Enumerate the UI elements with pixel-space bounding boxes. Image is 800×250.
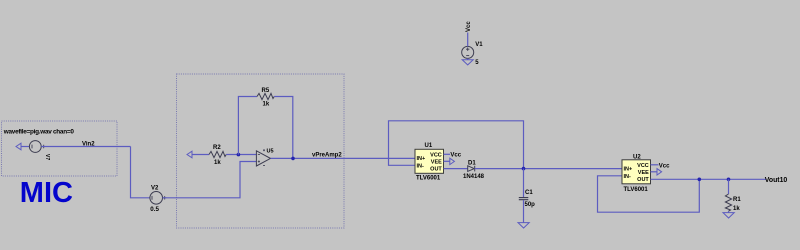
U1 VEE port flag xyxy=(450,158,455,164)
svg-text:V2: V2 xyxy=(151,186,159,192)
svg-text:C1: C1 xyxy=(525,190,533,196)
wire junction down to R1 xyxy=(728,179,730,194)
svg-text:wavefile=pig.wav chan=0: wavefile=pig.wav chan=0 xyxy=(3,129,75,136)
svg-text:R1: R1 xyxy=(733,197,741,203)
resistor R5 xyxy=(257,93,274,99)
svg-text:1N4148: 1N4148 xyxy=(463,174,485,180)
op-amp U5 xyxy=(256,151,270,166)
svg-text:V7: V7 xyxy=(44,154,50,160)
junction feedback node xyxy=(698,178,702,182)
V1 bottom stub xyxy=(467,58,469,59)
U1 OUT wire to diode xyxy=(444,168,468,170)
wire arrow to R2 xyxy=(192,154,209,156)
V7 minus mark xyxy=(31,145,33,149)
op-amp U1 body xyxy=(415,149,444,173)
R1 bottom stub xyxy=(728,211,730,212)
svg-text:U1: U1 xyxy=(425,143,433,149)
U2 VEE stub wire xyxy=(651,171,658,173)
svg-text:IN+: IN+ xyxy=(624,167,633,173)
voltage source V2 circle xyxy=(150,192,163,205)
V2 plus mark xyxy=(163,196,166,199)
svg-text:50p: 50p xyxy=(525,202,536,208)
svg-text:VCC: VCC xyxy=(430,152,442,158)
U2 VEE port flag xyxy=(657,169,662,175)
svg-text:Vin2: Vin2 xyxy=(82,141,95,147)
wire V7 to corner xyxy=(41,146,130,148)
svg-text:VEE: VEE xyxy=(638,170,649,176)
port arrow input (mic) xyxy=(16,143,21,150)
wire junction down to C1 xyxy=(523,169,525,198)
svg-text:U2: U2 xyxy=(633,155,641,161)
U2 OUT wire to Vout10 xyxy=(651,178,767,180)
preamp dashed region box xyxy=(177,74,345,228)
svg-text:TLV6001: TLV6001 xyxy=(416,176,441,182)
capacitor C1 xyxy=(519,198,529,200)
U1 VEE stub wire xyxy=(444,160,450,162)
U2 feedback loop xyxy=(598,176,700,212)
wire C1 to ground xyxy=(523,200,525,222)
U5 bottom rail tick xyxy=(263,165,265,167)
svg-text:OUT: OUT xyxy=(430,167,442,173)
voltage source V1 circle xyxy=(462,46,474,58)
svg-text:R5: R5 xyxy=(262,88,270,94)
op-amp U2 body xyxy=(622,160,651,184)
svg-text:OUT: OUT xyxy=(637,177,649,183)
U5 top rail tick xyxy=(263,149,265,151)
wire R2 to junction xyxy=(226,154,256,156)
junction R1 node xyxy=(727,178,731,182)
svg-text:Vcc: Vcc xyxy=(450,152,461,158)
svg-text:IN-: IN- xyxy=(417,163,425,169)
junction node A xyxy=(237,153,241,157)
wire V1 top stub xyxy=(467,33,469,47)
svg-text:Vcc: Vcc xyxy=(659,163,670,169)
junction output node xyxy=(291,157,295,161)
U1 VCC stub wire xyxy=(444,153,451,155)
V1 minus mark xyxy=(466,55,469,57)
R5 feedback loop wire left xyxy=(238,97,257,155)
resistor R1 xyxy=(725,194,731,211)
wire opamp out to U1 xyxy=(271,157,416,159)
U5 plus mark (bottom input) xyxy=(258,160,260,162)
svg-text:1k: 1k xyxy=(263,102,270,108)
svg-text:D1: D1 xyxy=(468,160,476,166)
ground (R1) xyxy=(723,213,734,218)
U2 VCC stub wire xyxy=(651,164,659,166)
wire diode to junction to U2 xyxy=(475,168,622,170)
svg-text:U5: U5 xyxy=(267,149,274,155)
D1 cathode bar xyxy=(474,166,476,172)
wire V2 to opamp plus input xyxy=(163,162,257,198)
svg-text:R2: R2 xyxy=(213,145,221,151)
U1 feedback: IN- wire, top loop xyxy=(389,121,524,169)
svg-text:IN-: IN- xyxy=(624,174,632,180)
MIC dashed region box xyxy=(2,121,118,176)
V2 minus mark xyxy=(151,196,153,200)
diode D1 xyxy=(468,166,475,172)
svg-text:VEE: VEE xyxy=(431,159,442,165)
svg-text:vPreAmp2: vPreAmp2 xyxy=(312,153,342,159)
svg-text:0.5: 0.5 xyxy=(150,206,159,213)
svg-text:TLV6001: TLV6001 xyxy=(624,187,649,193)
voltage source V7 circle xyxy=(29,141,41,153)
V1 plus mark xyxy=(466,48,469,51)
svg-text:V1: V1 xyxy=(475,42,483,48)
wire arrow to V7 xyxy=(21,146,29,148)
ground (C1) xyxy=(518,223,529,228)
resistor R2 xyxy=(209,151,226,157)
R5 loop wire right xyxy=(274,97,293,159)
U5 minus mark (top input) xyxy=(258,154,260,156)
junction rectifier node xyxy=(522,167,526,171)
wire corner down to V2 xyxy=(131,147,150,198)
svg-text:1k: 1k xyxy=(733,206,740,212)
svg-text:Vout10: Vout10 xyxy=(765,177,788,184)
svg-text:MIC: MIC xyxy=(20,177,73,209)
V7 plus mark xyxy=(42,145,45,148)
svg-text:VCC: VCC xyxy=(637,163,649,169)
svg-text:1k: 1k xyxy=(214,160,221,166)
port arrow input (R2 left) xyxy=(187,151,192,158)
svg-text:IN+: IN+ xyxy=(417,156,426,162)
svg-text:Vcc: Vcc xyxy=(466,21,472,32)
ground (V1) xyxy=(462,60,473,65)
